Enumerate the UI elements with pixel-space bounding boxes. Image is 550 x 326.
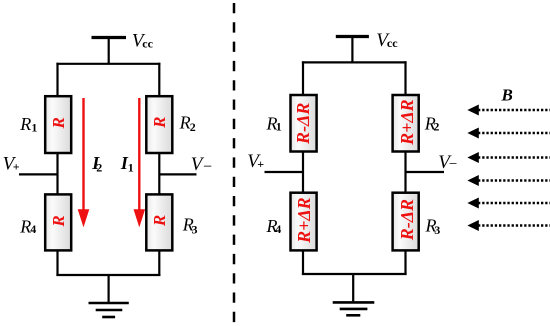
svg-text:R: R xyxy=(150,117,169,129)
svg-text:R: R xyxy=(179,112,191,132)
svg-text:3: 3 xyxy=(192,222,198,236)
svg-text:3: 3 xyxy=(434,223,440,237)
svg-text:2: 2 xyxy=(190,120,196,134)
svg-text:R: R xyxy=(49,117,68,129)
svg-text:2: 2 xyxy=(96,160,102,174)
svg-text:R-ΔR: R-ΔR xyxy=(293,103,313,145)
svg-text:R+ΔR: R+ΔR xyxy=(397,99,417,146)
svg-text:R: R xyxy=(49,215,68,227)
svg-text:2: 2 xyxy=(433,120,439,134)
svg-text:+: + xyxy=(13,160,20,174)
svg-text:1: 1 xyxy=(128,161,134,175)
svg-text:B: B xyxy=(501,86,513,105)
svg-text:+: + xyxy=(257,157,264,171)
svg-text:4: 4 xyxy=(30,222,36,236)
svg-text:−: − xyxy=(449,157,457,173)
svg-text:R: R xyxy=(19,114,31,134)
svg-text:R: R xyxy=(150,215,169,227)
svg-text:R-ΔR: R-ΔR xyxy=(397,199,417,241)
svg-text:−: − xyxy=(203,159,212,176)
svg-text:R+ΔR: R+ΔR xyxy=(294,197,314,244)
svg-text:cc: cc xyxy=(387,36,398,50)
svg-text:1: 1 xyxy=(276,120,282,134)
svg-text:cc: cc xyxy=(142,36,153,50)
svg-text:1: 1 xyxy=(31,120,37,134)
svg-text:4: 4 xyxy=(275,222,281,236)
